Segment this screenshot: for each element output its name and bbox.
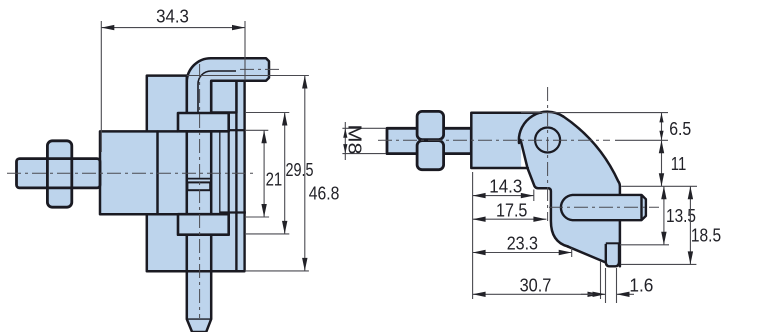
dimension 23.3 [571,248,573,257]
side view: pin horizontal centerline [549,206,659,208]
side view: hex nut lower half [417,141,444,170]
svg-text:14.3: 14.3 [489,176,522,197]
top jaw line [229,129,245,131]
svg-text:17.5: 17.5 [496,200,527,221]
front view: M8 stud [17,159,101,188]
tube inner bore line [198,71,236,131]
front view: hex nut [47,141,71,207]
side view: outer boundary arc to corner [563,116,620,266]
dimension 46.8 [187,75,309,77]
dimension 6.5 [521,112,668,114]
boss seam lines [158,130,179,133]
svg-text:18.5: 18.5 [691,225,721,246]
front view: body bottom edge [147,270,245,273]
front view vertical centerline [199,64,201,318]
front view: bottom pin [187,271,211,332]
svg-text:23.3: 23.3 [507,232,538,253]
dimension 1.6 [605,268,607,303]
front view: slot inner thin lines [219,131,221,214]
side view: hinge pin [561,195,646,220]
side view: pivot hole [535,128,560,153]
dimension 29.5 [245,112,289,114]
dimension 18.5 [621,263,697,265]
svg-text:M8: M8 [344,125,365,155]
dimension 30.7 [600,261,602,299]
front view: bottom clamp bracket [178,214,229,235]
front view: frame column plate [236,81,244,271]
dimension 14.3 [533,190,535,202]
front view: mounting boss [100,131,158,214]
side view: mounting block [471,113,521,168]
dimension 11 [621,185,697,187]
tube horizontal centerline [240,68,281,70]
front view: bent tube elbow [187,58,269,131]
svg-text:29.5: 29.5 [286,159,314,180]
bottom jaw line [220,211,246,213]
front view: top clamp bracket [178,113,229,131]
front view: channel fill between block and column [187,81,245,271]
dimension 17.5 [473,218,547,220]
svg-text:1.6: 1.6 [629,274,653,295]
dimension 21 [245,129,268,131]
svg-text:34.3: 34.3 [156,6,189,27]
svg-text:13.5: 13.5 [666,205,696,226]
dimension 34.3 [100,21,102,152]
svg-text:21: 21 [266,168,283,189]
svg-text:6.5: 6.5 [669,118,691,139]
side view: lobe arc [519,112,563,143]
front view: main body block [147,76,187,272]
front view: pin collar break in slot [187,178,211,180]
front view: upper right block [211,81,236,113]
left extension line for bottom dims [472,172,474,299]
side view: bottom diagonal edge [567,246,606,262]
svg-text:46.8: 46.8 [309,183,340,204]
side view: hex nut upper half [417,111,444,139]
side view: left slant edge into bracket [521,140,568,247]
svg-text:30.7: 30.7 [520,275,552,296]
side view: threaded rod [387,128,471,153]
dimension 13.5 [620,244,669,246]
side view: stud horizontal centerline [378,139,610,141]
side view: bottom thin plate [606,244,619,266]
side view: vertical centerline through hole [547,87,549,221]
dimension M8 [342,127,386,129]
front view horizontal centerline [7,172,256,174]
front view: channel vertical edges [186,81,189,271]
svg-text:11: 11 [671,153,687,174]
side view: body with pivot lobe fill [521,112,620,264]
